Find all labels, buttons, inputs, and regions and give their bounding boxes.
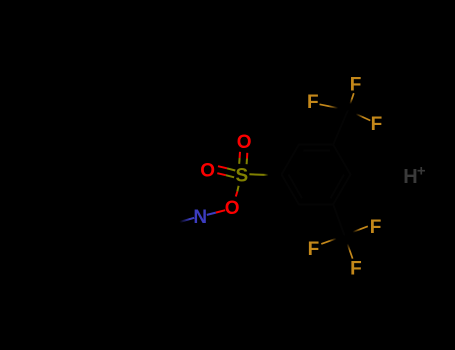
svg-text:H: H [403,166,417,188]
svg-text:+: + [417,162,426,179]
svg-text:F: F [350,74,362,95]
svg-text:N: N [193,207,207,228]
svg-text:F: F [370,217,382,238]
svg-text:F: F [308,239,320,260]
svg-text:S: S [235,166,248,187]
svg-text:F: F [350,259,362,280]
svg-text:O: O [200,160,215,181]
svg-text:O: O [237,132,252,153]
svg-text:F: F [307,92,319,113]
svg-text:O: O [225,198,240,219]
svg-text:F: F [371,114,383,135]
